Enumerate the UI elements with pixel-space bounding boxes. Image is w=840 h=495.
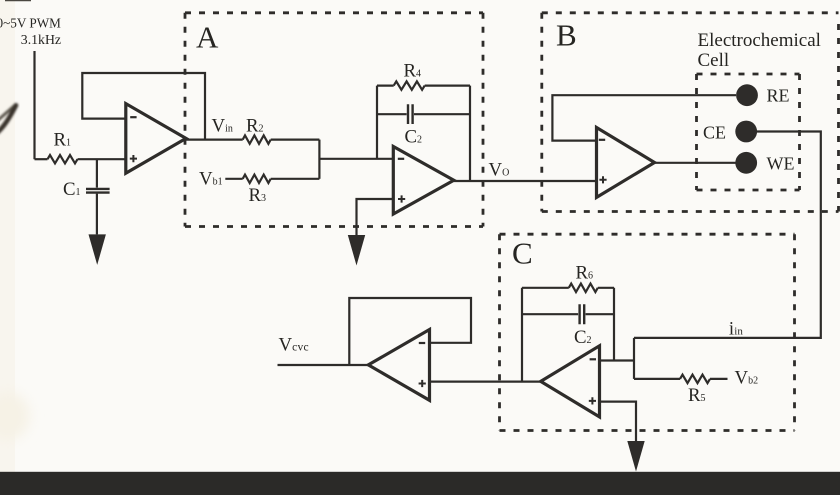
ground (box C) <box>627 441 644 472</box>
svg-text:A: A <box>196 20 219 55</box>
svg-text:in: in <box>734 325 743 337</box>
svg-text:Cell: Cell <box>698 50 730 71</box>
op-amp U5 (transimpedance, points left) <box>541 346 600 417</box>
wire: U5 + input to ground <box>600 402 637 441</box>
electrode CE <box>735 121 757 143</box>
wire: TIA feedback verticals <box>521 288 523 382</box>
wire: U5 inverting input to node <box>600 359 635 361</box>
electrode WE <box>735 152 757 174</box>
wire: U6 feedback loop <box>349 298 471 365</box>
photographed pen tip artifact at left edge <box>0 105 16 134</box>
wire: U2 + input to ground <box>357 199 394 235</box>
box A dashed border <box>185 11 483 14</box>
electrode RE <box>736 84 758 106</box>
resistor R1 <box>35 158 48 160</box>
svg-text:C: C <box>512 236 533 271</box>
resistor R5 <box>634 378 680 380</box>
svg-text:CE: CE <box>703 123 726 143</box>
left scan strip <box>0 0 15 495</box>
op-amp U1 (input buffer) <box>126 104 186 174</box>
wire: feedback verticals <box>376 86 378 159</box>
ground (box A) <box>348 235 365 266</box>
wire: U3 output to WE <box>655 162 737 164</box>
box C dashed border <box>500 233 795 236</box>
svg-text:0~5V PWM: 0~5V PWM <box>0 16 61 31</box>
svg-text:RE: RE <box>767 86 790 106</box>
svg-text:B: B <box>556 18 577 53</box>
bottom black bar <box>0 472 840 495</box>
op-amp U3 (potentiostat control) <box>597 128 655 198</box>
capacitor C2 (TIA feedback) <box>522 313 578 315</box>
svg-text:3.1kHz: 3.1kHz <box>21 32 61 47</box>
op-amp U2 <box>393 147 454 215</box>
wire: PWM input vertical + R1 line <box>33 51 35 159</box>
resistor R2 <box>243 135 271 143</box>
wire: U6 output Vcvc <box>278 364 369 366</box>
wire: U1 feedback loop <box>82 73 205 140</box>
svg-text:Electrochemical: Electrochemical <box>698 30 821 51</box>
wire: U3 feedback from RE <box>552 95 736 140</box>
cell dashed border <box>697 73 800 76</box>
resistor R3 <box>225 178 242 180</box>
wire: U5 output to U6 <box>430 381 541 383</box>
box B dashed border <box>542 11 839 14</box>
wire: i_in node vertical <box>633 338 635 379</box>
wire: R2/R3 junction to U2 inverting input <box>318 140 320 179</box>
wire: U1 output to R2 <box>186 139 243 141</box>
op-amp U6 (output buffer, points left) <box>368 330 429 401</box>
svg-text:WE: WE <box>767 154 795 174</box>
capacitor C2 (box A feedback) <box>377 113 407 115</box>
capacitor C1 <box>96 159 98 187</box>
wire: U2 output Vo <box>454 180 597 182</box>
wire: CE to i_in feed <box>634 132 821 338</box>
wire: top edge stub <box>5 0 31 2</box>
ground (C1) <box>89 234 106 265</box>
